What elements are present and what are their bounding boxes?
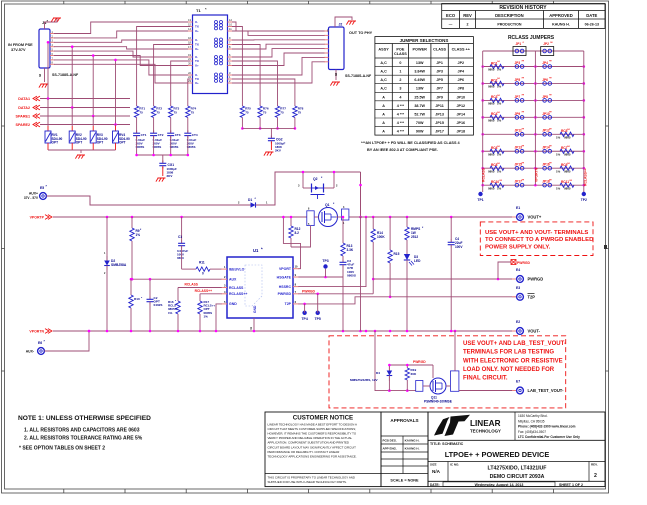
svg-text:1%: 1% [168,311,173,315]
svg-text:LINEAR: LINEAR [470,419,501,428]
svg-text:X+: X+ [195,47,199,51]
wire HSSRC [298,217,366,287]
svg-text:1%: 1% [204,314,209,318]
svg-text:VERIFY PROPER AND RELIABLE OPE: VERIFY PROPER AND RELIABLE OPERATION IN … [268,436,353,440]
svg-text:3.84W: 3.84W [414,70,425,74]
svg-text:POWER SUPPLY ONLY.: POWER SUPPLY ONLY. [485,244,551,250]
wire HSGATE [298,276,343,278]
svg-text:OPT: OPT [97,141,104,145]
svg-text:C1: C1 [178,235,182,239]
svg-text:IC NO.: IC NO. [450,463,459,467]
resistor R9 [131,217,133,228]
svg-text:LTC Confidential-For Customer: LTC Confidential-For Customer Use Only [518,435,580,439]
svg-text:CLASS: CLASS [394,52,407,56]
svg-text:JP13: JP13 [435,112,444,116]
wire mesh J1 to T1 [54,22,188,34]
wire PWRGD to gate [389,364,433,366]
diode D1 [241,204,251,206]
svg-text:TECHNOLOGY: TECHNOLOGY [470,429,501,434]
ground under RVs [77,154,85,156]
svg-text:A: A [382,95,385,99]
svg-text:RCLASS: RCLASS [184,283,198,287]
svg-text:NOTE 1: UNLESS OTHERWISE SPECI: NOTE 1: UNLESS OTHERWISE SPECIFIED [18,415,151,422]
wire top rail drop [360,172,362,217]
svg-text:TP4: TP4 [301,317,307,321]
svg-text:A,C: A,C [380,61,387,65]
svg-text:JP3: JP3 [436,70,443,74]
svg-text:37V-57V: 37V-57V [11,48,26,52]
svg-text:* SEE OPTION TABLES ON SHEET 2: * SEE OPTION TABLES ON SHEET 2 [19,446,105,452]
svg-text:OUT TO PHY: OUT TO PHY [349,31,373,35]
wire drops to surge rails [47,42,49,98]
svg-text:TP1: TP1 [477,198,483,202]
svg-text:JP1: JP1 [516,42,522,46]
svg-text:APPROVED: APPROVED [549,13,573,18]
svg-text:1%: 1% [497,85,502,89]
dashed lab region [329,336,566,408]
svg-text:TITLE: SCHEMATIC: TITLE: SCHEMATIC [430,442,464,446]
svg-text:APPROVALS: APPROVALS [390,418,418,423]
svg-text:1: 1 [399,70,401,74]
svg-text:JP9: JP9 [436,95,443,99]
svg-text:PWRGD: PWRGD [302,289,316,293]
svg-text:CLASS ++: CLASS ++ [452,48,471,52]
LED D3 [406,252,408,254]
svg-text:0805: 0805 [488,68,495,72]
svg-text:JP6: JP6 [542,78,548,82]
svg-text:JP9: JP9 [515,112,521,116]
svg-text:JP2: JP2 [543,42,549,46]
svg-text:R10: R10 [134,297,140,301]
capacitor CG1 [162,155,164,162]
resistor R19 [406,365,408,368]
capacitor C1 [181,217,183,241]
svg-text:RCLASS++: RCLASS++ [195,289,212,293]
svg-text:PRODUCTION: PRODUCTION [497,23,522,27]
svg-text:13W: 13W [416,61,424,65]
svg-text:JP8: JP8 [542,95,548,99]
svg-text:KAUNG H.: KAUNG H. [405,447,420,451]
svg-text:0402S: 0402S [154,303,163,307]
svg-text:JP11: JP11 [435,104,443,108]
svg-text:BY AN IEEE 802.3 AT COMPLIANT: BY AN IEEE 802.3 AT COMPLIANT PSE. [367,148,438,152]
svg-text:JP5: JP5 [436,78,443,82]
svg-text:SS-7188S-A-NF: SS-7188S-A-NF [52,73,79,77]
wire VPORTN rail [53,330,516,332]
wire mesh T1 to J2 [232,22,325,31]
svg-text:JP1: JP1 [436,61,443,65]
test point TP4 [302,311,306,315]
svg-text:LED: LED [414,259,421,263]
resistors R75-R78 capacitor CG2 [232,27,242,107]
svg-text:JP12: JP12 [456,104,465,108]
warning box 1 [480,222,593,256]
svg-text:PWRGD: PWRGD [413,360,426,364]
svg-text:VPORT: VPORT [279,267,292,271]
svg-text:HOWEVER, IT REMAINS THE CUSTOM: HOWEVER, IT REMAINS THE CUSTOMER'S RESPO… [268,432,357,436]
svg-text:RC10: RC10 [491,180,499,184]
svg-text:SCALE = NONE: SCALE = NONE [390,479,419,483]
svg-text:HSSRC: HSSRC [279,285,292,289]
svg-text:2: 2 [594,473,597,479]
svg-text:RCLASS: RCLASS [229,286,244,290]
svg-text:X+: X+ [195,81,199,85]
svg-text:JP16: JP16 [456,121,465,125]
svg-text:70W: 70W [416,121,424,125]
svg-text:TX: TX [195,43,199,47]
node dots main rail [106,216,109,219]
svg-text:U1: U1 [253,248,259,253]
op-amp U1 (LT4275) [227,257,293,318]
svg-text:APPLICATION. COMPONENT SUBSTI: APPLICATION. COMPONENT SUBSTITUTION AND … [268,441,349,445]
resistor RMPS [406,217,408,227]
svg-text:Milpitas, CA 95035: Milpitas, CA 95035 [518,419,545,423]
svg-text:PCB DES.: PCB DES. [383,439,397,443]
wire AUX net [131,278,222,280]
svg-text:LINEAR TECHNOLOGY HAS MADE A B: LINEAR TECHNOLOGY HAS MADE A BEST EFFORT… [268,423,357,427]
svg-text:VOUT+: VOUT+ [528,215,542,220]
diode D2 [106,217,108,256]
svg-text:TO CONNECT TO A PWRGD ENABLED: TO CONNECT TO A PWRGD ENABLED [485,237,593,243]
svg-text:2: 2 [399,78,401,82]
svg-text:JP2: JP2 [458,61,465,65]
svg-text:SMBJ58A: SMBJ58A [111,263,127,267]
svg-text:JP4: JP4 [458,70,466,74]
svg-text:JP17: JP17 [435,130,444,134]
svg-text:0603: 0603 [177,256,184,260]
svg-text:CT2: CT2 [158,133,164,137]
varistors RV1-RV4 [47,99,49,127]
svg-text:1%: 1% [556,186,561,190]
svg-text:38.7W: 38.7W [414,104,425,108]
svg-text:RCLASS JUMPERS: RCLASS JUMPERS [508,35,555,41]
svg-text:4 ***: 4 *** [397,104,405,108]
svg-text:0805: 0805 [564,136,571,140]
wire T2P net [298,297,516,304]
svg-text:1%: 1% [497,102,502,106]
wire E6 to rail [44,331,89,351]
connector J2 [329,27,345,70]
svg-text:X-: X- [195,38,198,42]
svg-text:A,C: A,C [380,70,387,74]
ground at J2 bottom [332,81,340,83]
svg-text:AUX: AUX [229,278,237,282]
svg-text:E4: E4 [516,268,520,272]
svg-text:OPT: OPT [52,141,59,145]
svg-text:A: A [382,130,385,134]
wire rail right of Q1 [349,216,516,218]
svg-text:JP8: JP8 [458,87,465,91]
svg-text:REV: REV [463,13,472,18]
svg-text:2512: 2512 [411,235,418,239]
svg-text:R15: R15 [394,252,400,256]
svg-text:VPORTP: VPORTP [30,216,45,220]
terminal E6 AUX- [44,350,49,352]
svg-text:100K: 100K [377,235,385,239]
svg-text:OPT: OPT [76,141,83,145]
svg-text:DESCRIPTION: DESCRIPTION [495,13,524,18]
svg-text:X-: X- [195,20,198,24]
wire R12 bottom [291,226,311,247]
svg-text:1%: 1% [497,152,502,156]
svg-text:30K: 30K [411,372,417,376]
svg-text:JP4: JP4 [542,61,548,65]
svg-text:SPARE1: SPARE1 [16,114,30,118]
svg-text:KAUNG H.: KAUNG H. [405,439,420,443]
svg-text:IN FROM PSE: IN FROM PSE [8,43,33,47]
terminal E3 T2P [512,296,517,298]
svg-text:SS-7188S-A-NF: SS-7188S-A-NF [345,74,372,78]
svg-text:PSMN040-100MSE: PSMN040-100MSE [424,400,452,404]
svg-text:A: A [382,121,385,125]
svg-text:DATA2: DATA2 [18,106,30,110]
svg-text:***AN LTPOE+ + PD WILL BE CLAS: ***AN LTPOE+ + PD WILL BE CLASSIFIED AS … [361,141,461,145]
svg-text:DATE:: DATE: [430,483,440,487]
svg-text:TERMINALS FOR LAB TESTING: TERMINALS FOR LAB TESTING [463,350,554,356]
svg-text:75: 75 [139,110,143,114]
svg-text:J2: J2 [339,23,343,27]
svg-text:1630 McCarthy Blvd.: 1630 McCarthy Blvd. [518,414,548,418]
svg-text:100V: 100V [455,245,463,249]
svg-text:52.7W: 52.7W [414,112,425,116]
svg-text:JP18: JP18 [456,130,465,134]
svg-text:E5: E5 [40,186,44,190]
svg-text:LT4275XIDO, LT4321IUF: LT4275XIDO, LT4321IUF [488,466,547,472]
svg-text:3: 3 [399,87,401,91]
svg-text:0805: 0805 [488,152,495,156]
svg-text:RC11: RC11 [561,180,569,184]
svg-text:75: 75 [156,110,160,114]
test point TP1 [478,192,482,196]
svg-text:VPORTN: VPORTN [29,330,44,334]
svg-text:USE VOUT+ AND LAB_TEST_VOUT-: USE VOUT+ AND LAB_TEST_VOUT- [463,341,566,347]
svg-text:0805: 0805 [564,186,571,190]
svg-text:E7: E7 [516,380,520,384]
svg-text:75: 75 [174,110,178,114]
svg-text:OPT: OPT [119,141,126,145]
svg-text:N/A: N/A [432,469,441,474]
svg-text:1%: 1% [497,68,502,72]
svg-text:RCLASS: RCLASS [482,167,486,182]
svg-text:D4: D4 [376,371,380,375]
svg-text:Q1: Q1 [325,203,330,207]
svg-text:SIZE: SIZE [430,463,437,467]
revision history table [442,4,605,29]
wire PWRGD net [298,293,373,295]
J1 shield wire [44,68,46,82]
svg-text:1%: 1% [497,119,502,123]
svg-text:4 ***: 4 *** [397,130,405,134]
svg-text:06-26-13: 06-26-13 [585,23,599,27]
svg-text:A: A [382,112,385,116]
wire VPORT net [283,217,300,269]
svg-text:CT3: CT3 [175,133,181,137]
svg-text:JP15: JP15 [435,121,444,125]
svg-text:PWRGD: PWRGD [278,292,292,296]
svg-text:JP5: JP5 [515,78,521,82]
svg-text:SHEET 1 OF 2: SHEET 1 OF 2 [559,483,583,487]
svg-text:THIS CIRCUIT IS PROPRIETARY TO: THIS CIRCUIT IS PROPRIETARY TO LINEAR TE… [268,476,355,480]
svg-text:VOUT-: VOUT- [528,329,541,334]
resistor R13 [342,217,344,243]
svg-text:REVISION HISTORY: REVISION HISTORY [499,5,547,11]
svg-text:ECO: ECO [446,13,456,18]
transistor Q11 [430,378,446,394]
svg-text:USE VOUT+ AND VOUT- TERMINALS: USE VOUT+ AND VOUT- TERMINALS [485,230,588,236]
svg-text:75: 75 [298,110,302,114]
svg-text:RCLASS++: RCLASS++ [229,292,247,296]
svg-text:0805: 0805 [488,186,495,190]
svg-text:X+: X+ [195,64,199,68]
svg-text:E2: E2 [516,320,520,324]
wire PWRGD rail to E4 [373,278,516,280]
svg-text:1%: 1% [556,152,561,156]
capacitor C4 [450,217,452,240]
svg-text:Q2: Q2 [313,177,318,181]
svg-text:37V - 57V: 37V - 57V [24,196,39,200]
svg-text:75: 75 [280,110,284,114]
svg-text:AUX-: AUX- [26,350,34,354]
svg-text:2KV: 2KV [167,174,173,178]
svg-text:WITH ELECTRONIC OR RESISTIVE: WITH ELECTRONIC OR RESISTIVE [463,358,563,364]
svg-text:1. ALL RESISTORS AND CAPACITO: 1. ALL RESISTORS AND CAPACITORS ARE 0603 [24,428,140,434]
svg-text:FINAL CIRCUIT.: FINAL CIRCUIT. [463,376,508,382]
svg-text:TP5: TP5 [315,317,321,321]
RCLASS jumper network [483,50,584,52]
PWRGD flag [498,262,511,279]
wire Q2-col [360,217,362,331]
svg-text:0: 0 [399,61,401,65]
resistor R16 [176,301,180,314]
resistor R14 [372,217,374,229]
svg-text:0805: 0805 [488,102,495,106]
svg-text:4 ***: 4 *** [397,112,405,116]
wire rail to Q11 [375,331,416,391]
wire D1 to top rail [265,172,361,205]
wire E5 to D1 [46,196,241,205]
svg-text:A,C: A,C [380,78,387,82]
svg-text:2. ALL RESISTORS TOLERANCE RA: 2. ALL RESISTORS TOLERANCE RATING ARE 5% [24,436,143,442]
wire VPORTP rail [53,216,307,218]
wire RCLASS++ [200,293,222,295]
varistor ground bus [48,149,116,151]
transistor Q2 [302,172,304,188]
svg-text:CIRCUIT THAT MEETS CUSTOMER-SU: CIRCUIT THAT MEETS CUSTOMER-SUPPLIED SPE… [268,427,357,431]
svg-text:GND: GND [253,305,257,313]
svg-text:0805S: 0805S [347,273,356,277]
svg-text:Fax: (408)434-0507: Fax: (408)434-0507 [518,430,546,434]
terminal E2 VOUT- [512,330,517,332]
jumper selections table [375,37,474,136]
svg-text:PWRGD: PWRGD [528,277,544,282]
svg-text:8.2: 8.2 [295,231,300,235]
wire Q11 drain to VOUT- [454,331,456,371]
svg-text:CLASS: CLASS [433,48,446,52]
svg-text:PERFORMANCE OR RELIABILITY. C: PERFORMANCE OR RELIABILITY. CONTACT LINE… [268,450,340,454]
svg-text:R11: R11 [199,261,205,265]
resistor R17 [198,301,202,314]
svg-text:RCLASS++: RCLASS++ [584,168,588,186]
test point TP2 [582,192,586,196]
resistor R11 [196,267,210,271]
svg-text:HSGATE: HSGATE [277,275,292,279]
svg-text:A,C: A,C [380,87,387,91]
svg-text:3.3K: 3.3K [347,248,354,252]
resistor R12 [290,217,292,226]
svg-text:1%: 1% [556,136,561,140]
svg-text:1%: 1% [136,233,141,237]
approvals box [381,412,428,487]
svg-text:LOAD ONLY. NOT NEEDED FOR: LOAD ONLY. NOT NEEDED FOR [463,367,555,373]
svg-text:75: 75 [263,110,267,114]
svg-text:JP14: JP14 [456,112,466,116]
svg-text:0805: 0805 [488,169,495,173]
svg-text:Wednesday, August 14, 2013: Wednesday, August 14, 2013 [475,483,524,487]
J2 top ground wire [335,17,352,27]
svg-text:TX: TX [195,25,199,29]
svg-text:CIRCUIT BOARD LAYOUT MAY SIGNI: CIRCUIT BOARD LAYOUT MAY SIGNIFICANTLY A… [268,445,357,449]
svg-text:90W: 90W [416,130,424,134]
svg-text:75: 75 [191,110,195,114]
wire C3 col to rail [342,277,344,331]
resistors R71-R74 and caps CT1-CT4 [137,27,190,107]
ground under CG2 [266,151,274,153]
svg-text:6.49W: 6.49W [414,78,425,82]
test point TP5 [316,311,320,315]
ground at J1 top [53,17,61,19]
svg-text:TECHNOLOGY APPLICATIONS ENGINE: TECHNOLOGY APPLICATIONS ENGINEERING FOR … [268,454,357,458]
resistor R15 [389,217,391,250]
svg-text:TP2: TP2 [581,198,587,202]
svg-text:—: — [449,23,453,27]
svg-text:CT1: CT1 [141,133,147,137]
svg-text:ASSY: ASSY [378,48,389,52]
svg-text:0805: 0805 [564,169,571,173]
svg-text:E3: E3 [516,286,520,290]
title block [428,412,605,487]
svg-text:SUPPLIED FOR USE WITH LINEAR T: SUPPLIED FOR USE WITH LINEAR TECHNOLOGY … [268,480,347,484]
svg-text:JP6: JP6 [458,78,465,82]
svg-text:POWER: POWER [413,48,428,52]
VPORTN junction dots [106,330,109,333]
svg-text:LAB_TEST_VOUT-: LAB_TEST_VOUT- [528,388,565,393]
svg-text:CUSTOMER NOTICE: CUSTOMER NOTICE [293,415,353,422]
svg-text:E1: E1 [516,206,520,210]
svg-text:2: 2 [467,23,469,27]
svg-text:75: 75 [245,110,249,114]
capacitor C3 [342,260,344,263]
svg-text:VPORTN: VPORTN [534,167,538,182]
svg-text:TX: TX [195,59,199,63]
svg-text:T2P: T2P [528,295,536,300]
svg-text:0805: 0805 [488,85,495,89]
svg-text:1%: 1% [497,186,502,190]
svg-text:JP7: JP7 [436,87,443,91]
svg-text:25.5W: 25.5W [414,95,425,99]
svg-text:2KV: 2KV [275,149,281,153]
terminal E4 PWRGD [512,278,517,280]
svg-text:CT4: CT4 [192,133,198,137]
svg-text:APP ENG.: APP ENG. [383,447,397,451]
svg-text:JUMPER SELECTIONS: JUMPER SELECTIONS [400,38,449,43]
svg-text:MMSZ5242BS, 12V: MMSZ5242BS, 12V [350,378,378,382]
svg-text:IEEUVLO: IEEUVLO [229,267,245,271]
capacitor C2 [149,279,151,297]
resistor R10 [130,279,132,295]
terminal E5 AUX+ [46,195,51,197]
svg-text:0805: 0805 [488,119,495,123]
svg-text:1%: 1% [497,169,502,173]
